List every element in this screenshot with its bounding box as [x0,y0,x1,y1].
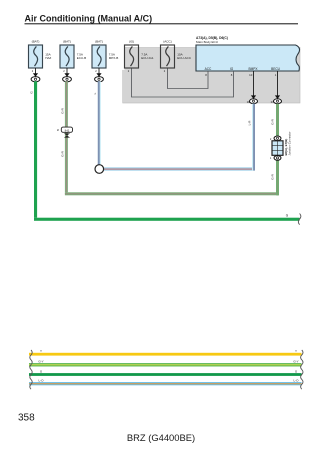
svg-text:1: 1 [270,156,272,160]
svg-text:(BAT): (BAT) [63,40,71,44]
svg-text:BECU: BECU [271,67,281,71]
junction connector U2 E6(A), E7(B) [272,136,283,160]
svg-text:MPX-B: MPX-B [109,56,119,60]
node A (open circle junction) [95,165,104,174]
bus wire G (green) [29,373,302,376]
svg-text:G-Y: G-Y [293,360,298,364]
svg-text:HAZ: HAZ [45,56,51,60]
svg-text:(BAT): (BAT) [32,40,40,44]
fuse F3 7.5A MPX-B [92,40,118,68]
svg-text:IH1: IH1 [65,128,70,132]
svg-text:G: G [286,213,289,217]
wire: F3 blue vertical (L) [98,81,101,164]
fuse F1 15A HAZ [29,40,52,68]
junction connector label (vertical text) [284,131,292,155]
wire: fuse F5 (ACC) to ACC pin (internal gray wiring) [168,68,209,89]
wire: fuse F4 (IG) to IG pin (internal gray wiring) [132,68,234,97]
svg-text:ACC: ACC [205,67,212,71]
svg-text:L-R: L-R [247,120,251,126]
wire: BECU green vertical lower (G-R) [276,158,279,195]
svg-text:Air Conditioning (Manual A/C): Air Conditioning (Manual A/C) [25,13,153,23]
connector 19 (BMPX pin, arrow + oval) [247,95,258,104]
svg-text:G-R: G-R [60,150,64,156]
svg-text:BMPX: BMPX [248,67,258,71]
svg-text:ECU-IG1: ECU-IG1 [141,56,154,60]
svg-text:G-R: G-R [270,173,274,179]
fuse F5 10A ECU-ACC (inside relay block) [161,40,192,73]
svg-text:(BAT): (BAT) [95,40,103,44]
wire: F2 sage vertical (G-R) [65,81,68,192]
title: Air Conditioning (Manual A/C) [25,13,299,24]
main body ECU U1 (cyan block with wavy right edge) [196,45,300,71]
svg-text:ECU-B: ECU-B [77,56,86,60]
bus wire Y (yellow) [29,353,302,356]
continuation squiggle (bus left) [30,350,32,389]
inline connector (hourglass) on F2 wire [64,133,70,137]
continuation squiggle (bus right) [301,350,303,389]
svg-text:2I: 2I [57,128,59,132]
connector below F2 (arrow + oval) [63,68,72,82]
svg-text:G-R: G-R [270,118,274,124]
wire: BECU pin stub [277,71,279,96]
svg-text:(IG): (IG) [129,40,134,44]
continuation squiggle (end of G wire) [298,214,301,225]
wire: L-R horizontal (node to BMPX) [104,167,255,170]
svg-text:L: L [93,92,97,94]
svg-text:Y: Y [295,349,297,353]
wire: BMPX blue vertical (L-R) [252,104,255,171]
svg-text:G: G [295,369,298,373]
svg-text:(ACC): (ACC) [163,40,172,44]
bus wire L-O (blue/orange) [29,382,302,385]
fuse F2 7.5A ECU-B [60,40,86,68]
svg-text:2: 2 [32,69,34,73]
bus wire G-Y (green/yellow) [29,363,302,366]
connector below F1 (arrow + oval) [31,68,40,82]
connector ID box on F2 wire [57,127,73,132]
wire: BECU green vertical upper (G-R) [276,104,279,137]
wire: G-R horizontal (F2 to junction connector) [65,192,279,195]
svg-text:Main Body ECU: Main Body ECU [196,40,218,44]
connector below F3 (arrow + oval) [95,68,104,82]
svg-text:ECU-ACC: ECU-ACC [177,56,192,60]
svg-text:L-O: L-O [293,379,299,383]
svg-text:IG: IG [230,67,234,71]
wire: BMPX pin stub [253,71,255,96]
svg-text:2: 2 [63,69,65,73]
svg-text:G: G [30,91,34,94]
relay block gray box (Main Body ECU housing) [122,47,301,103]
svg-text:10: 10 [249,73,253,77]
svg-text:358: 358 [18,413,35,424]
svg-text:BRZ (G4400BE): BRZ (G4400BE) [127,432,195,443]
connector 27 (BECU pin, arrow + oval) [271,95,282,104]
svg-text:G-R: G-R [60,107,64,113]
fuse F4 7.5A ECU-IG1 (inside relay block) [125,40,154,73]
svg-text:2: 2 [95,69,97,73]
svg-text:Junction Connector: Junction Connector [288,131,292,155]
wire: F1 green vertical (G) [34,81,37,217]
svg-text:G-Y: G-Y [38,360,43,364]
svg-text:G: G [40,369,43,373]
main body ECU header label [196,36,228,44]
svg-text:Y: Y [40,349,42,353]
svg-text:L-O: L-O [38,379,44,383]
wire: F1 green horizontal to page edge (G) [34,218,300,221]
